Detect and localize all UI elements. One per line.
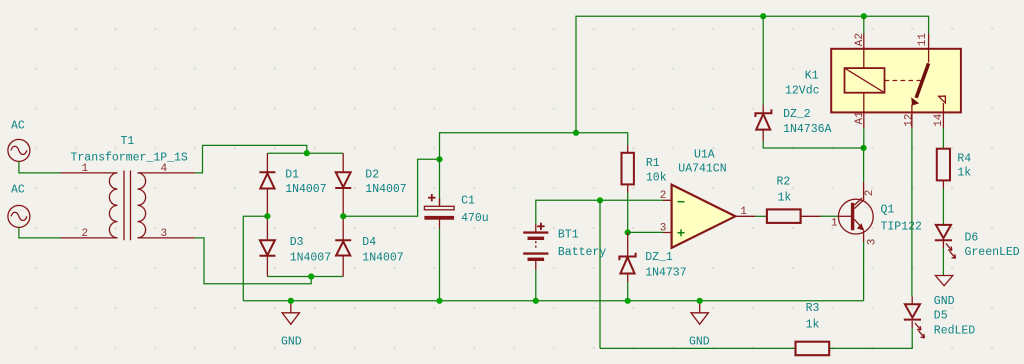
- wire D6 to GND3: [942, 248, 944, 276]
- svg-text:U1A: U1A: [694, 149, 715, 162]
- wire bridge negative to ground rail: [243, 216, 267, 301]
- diode D3: [259, 216, 331, 276]
- wire bridge top edge: [267, 152, 343, 154]
- wire battery plus to op-amp pin 2: [536, 200, 663, 224]
- svg-text:UA741CN: UA741CN: [678, 163, 726, 176]
- zener DZ_1: [619, 232, 686, 282]
- wire supply riser to top rail: [576, 16, 929, 133]
- junction bridge bottom node: [308, 273, 314, 279]
- diode D4: [335, 216, 404, 276]
- svg-text:D2: D2: [365, 169, 379, 182]
- capacitor C1: [424, 194, 488, 228]
- wire C1 riser to top horizontal: [440, 133, 628, 207]
- svg-text:2: 2: [660, 190, 667, 202]
- battery BT1: [523, 223, 606, 270]
- wire DZ_2 to collector node: [763, 141, 863, 148]
- wire transformer pin 3 to bridge bottom: [195, 238, 312, 284]
- svg-text:K1: K1: [805, 70, 819, 83]
- svg-text:GND: GND: [689, 336, 710, 349]
- svg-text:2: 2: [82, 228, 89, 240]
- svg-text:1N4736A: 1N4736A: [783, 123, 831, 136]
- svg-text:D6: D6: [965, 232, 979, 245]
- resistor R2: [767, 175, 821, 223]
- svg-text:Transformer_1P_1S: Transformer_1P_1S: [71, 151, 188, 164]
- svg-text:T1: T1: [121, 135, 135, 148]
- wire relay pin 14 to R4: [942, 128, 944, 148]
- svg-text:2: 2: [864, 190, 876, 197]
- svg-text:1: 1: [831, 217, 838, 229]
- junction A2 top rail: [861, 13, 867, 19]
- wire bridge bottom edge: [267, 276, 343, 278]
- resistor R1: [622, 145, 667, 192]
- svg-text:GND: GND: [281, 335, 302, 348]
- junction collector DZ_2 node: [861, 145, 867, 151]
- zener DZ_2: [755, 105, 831, 141]
- junction battery ground: [533, 298, 539, 304]
- junction C1 top branch: [436, 156, 442, 162]
- svg-text:A1: A1: [854, 111, 866, 125]
- svg-text:C1: C1: [461, 195, 475, 208]
- junction DZ_2 top rail: [760, 13, 766, 19]
- wire top rail to DZ_2: [762, 16, 764, 105]
- svg-text:1: 1: [740, 206, 747, 218]
- wire DZ_1 bottom to ground rail: [627, 282, 629, 301]
- junction top riser: [573, 130, 579, 136]
- wire ground rail: [243, 300, 863, 302]
- wire AC1 to transformer pin 1: [19, 162, 61, 173]
- svg-text:GreenLED: GreenLED: [965, 246, 1020, 259]
- svg-text:R1: R1: [646, 157, 660, 170]
- svg-text:4: 4: [161, 163, 168, 175]
- transistor Q1: [831, 182, 922, 245]
- junction DZ_1 ground: [625, 298, 631, 304]
- svg-text:3: 3: [161, 228, 168, 240]
- wire Q1 emitter to ground rail: [863, 242, 865, 301]
- svg-text:D3: D3: [290, 236, 304, 249]
- svg-text:1N4007: 1N4007: [290, 251, 331, 264]
- svg-text:TIP122: TIP122: [881, 220, 923, 233]
- junction C1 bottom: [436, 298, 442, 304]
- svg-text:GND: GND: [934, 295, 955, 308]
- svg-text:12Vdc: 12Vdc: [785, 85, 820, 98]
- junction bridge top node: [304, 150, 310, 156]
- junction ground rail GND2 tap: [697, 298, 703, 304]
- wire relay A1 to collector node: [863, 128, 865, 148]
- svg-text:14: 14: [933, 113, 945, 127]
- svg-text:1k: 1k: [806, 319, 820, 332]
- AC source 1: [8, 120, 30, 162]
- svg-text:1: 1: [82, 163, 89, 175]
- svg-text:470u: 470u: [461, 212, 489, 225]
- svg-text:DZ_1: DZ_1: [645, 251, 673, 264]
- wire R2 to Q1 base: [821, 215, 839, 217]
- svg-text:1N4007: 1N4007: [285, 183, 326, 196]
- wire op-amp output to R2: [755, 215, 767, 217]
- resistor R3: [796, 302, 830, 355]
- diode D2: [335, 153, 407, 216]
- wire R4 to D6: [942, 188, 944, 225]
- ground symbol GND3: [934, 276, 955, 309]
- svg-text:10k: 10k: [646, 171, 667, 184]
- svg-text:AC: AC: [11, 120, 25, 133]
- wire Q1 collector to relay A1 node: [863, 148, 865, 182]
- junction ground rail GND1 tap: [288, 298, 294, 304]
- AC source 2: [8, 183, 30, 227]
- svg-text:1N4007: 1N4007: [365, 183, 406, 196]
- svg-text:BT1: BT1: [558, 228, 579, 241]
- wire top rail to relay A2: [863, 16, 865, 33]
- svg-text:Q1: Q1: [881, 204, 895, 217]
- junction pin2 feedback branch: [597, 197, 603, 203]
- svg-text:12: 12: [904, 114, 916, 127]
- svg-text:3: 3: [866, 239, 878, 246]
- wire AC2 to transformer pin 2: [19, 227, 61, 238]
- ground symbol GND1: [281, 301, 302, 349]
- svg-text:DZ_2: DZ_2: [783, 108, 811, 121]
- wire relay pin 12 to D5: [911, 128, 913, 296]
- svg-text:AC: AC: [11, 183, 25, 196]
- svg-text:D5: D5: [934, 310, 948, 323]
- svg-text:R3: R3: [806, 302, 820, 315]
- wire bridge positive to C1: [343, 159, 439, 216]
- wire C1 bottom to ground rail: [439, 228, 441, 301]
- svg-text:R4: R4: [957, 153, 971, 166]
- wire pin3 node to op-amp pin 3: [628, 231, 663, 233]
- svg-text:1k: 1k: [957, 167, 971, 180]
- svg-text:Battery: Battery: [558, 246, 606, 259]
- svg-text:A2: A2: [854, 33, 866, 46]
- svg-text:D4: D4: [362, 236, 376, 249]
- transformer T1: [61, 135, 195, 240]
- svg-text:R2: R2: [777, 175, 791, 188]
- wire transformer pin 4 to bridge top: [195, 145, 307, 173]
- svg-text:11: 11: [917, 33, 929, 47]
- wire battery minus to ground rail: [535, 270, 537, 301]
- junction bridge left mid node: [264, 213, 270, 219]
- relay K1: [785, 33, 961, 129]
- svg-text:3: 3: [660, 223, 667, 235]
- op-amp U1A: [660, 149, 755, 248]
- svg-text:1N4737: 1N4737: [645, 267, 686, 280]
- ground symbol GND2: [689, 301, 710, 349]
- svg-text:RedLED: RedLED: [934, 325, 976, 338]
- svg-text:D1: D1: [285, 169, 299, 182]
- junction bridge right mid node: [340, 213, 346, 219]
- diode D1: [259, 153, 326, 216]
- svg-text:1N4007: 1N4007: [362, 251, 403, 264]
- resistor R4: [937, 149, 972, 188]
- wire feedback bottom run through R3: [600, 328, 912, 348]
- wire feedback branch down: [599, 200, 601, 348]
- junction pin3 node: [625, 229, 631, 235]
- LED D6: [935, 225, 1020, 259]
- LED D5: [904, 297, 976, 338]
- wire R1 bottom to pin3 node: [627, 193, 629, 233]
- svg-text:1k: 1k: [778, 192, 792, 205]
